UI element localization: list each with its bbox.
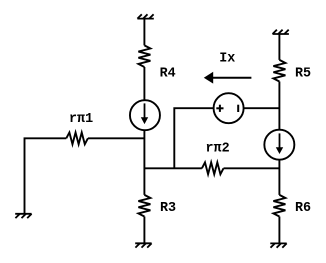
svg-text:rπ2: rπ2 [206,142,230,157]
svg-text:Ix: Ix [219,52,235,67]
svg-text:R6: R6 [295,201,311,216]
svg-text:R4: R4 [160,67,176,82]
svg-text:rπ1: rπ1 [69,112,93,127]
svg-text:R3: R3 [160,201,176,216]
svg-text:R5: R5 [295,67,311,82]
